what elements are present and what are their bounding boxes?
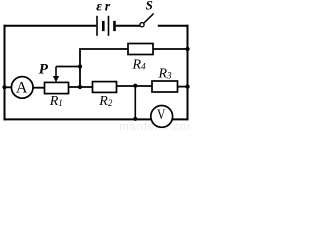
junction dot bottom border [133,117,137,121]
svg-text:R3: R3 [158,67,173,82]
junction dot R3 / right border [185,84,189,88]
switch S blade [144,14,154,23]
wire left border [4,25,6,121]
wire bottom-right (voltmeter to right corner) [172,118,188,120]
svg-text:R4: R4 [132,57,147,72]
resistor R3 [152,81,178,92]
wire R2 to R3 [117,85,153,87]
wire node down to bottom border [134,86,136,119]
wire bottom border [4,118,152,120]
svg-text:r: r [105,0,111,14]
wire right border [187,25,189,121]
svg-text:R2: R2 [98,94,113,109]
wire ammeter to R1 [33,87,45,89]
voltmeter V [151,106,173,128]
svg-text:S: S [146,0,153,12]
slider arrow stem [55,67,57,78]
wire R3 to right border [178,86,188,88]
wire top-right (switch to right corner) [158,25,189,27]
svg-text:R1: R1 [49,94,63,109]
resistor R2 [93,82,117,93]
svg-text:V: V [157,107,166,123]
wire battery to switch [116,25,140,27]
battery cell plate long 2 [108,16,110,36]
battery cell plate long 1 [96,16,98,36]
battery cell plate short 2 [113,21,116,31]
svg-text:ε: ε [96,0,102,15]
wire R1 to R2 [69,86,93,88]
ammeter A [11,77,33,99]
junction dot slider node [78,64,82,68]
junction dot on R2-R3 wire [133,84,137,88]
wire left border to ammeter [5,86,12,88]
wire top-left (battery to left corner) [4,25,97,27]
svg-text:P: P [39,61,49,77]
slider arrowhead [53,76,59,82]
junction dot R4 / right border [185,47,189,51]
junction dot left border / ammeter wire [2,85,6,89]
wire node down to main row [79,67,81,88]
resistor R1 (rheostat) [45,82,69,93]
wire slider to node [56,66,80,68]
resistor R4 [128,44,153,55]
junction dot on R1-R2 wire [78,85,82,89]
battery cell plate short 1 [102,21,105,31]
wire node up and right to R4 [80,49,128,67]
wire R4 to right border [153,48,188,50]
switch S pivot [140,23,144,27]
svg-text:A: A [16,80,28,97]
